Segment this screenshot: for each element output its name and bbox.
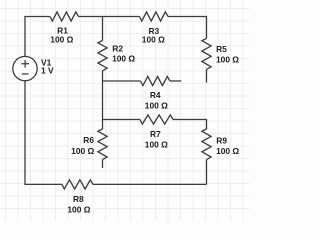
svg-text:100 Ω: 100 Ω [216,55,239,65]
wire R5 bottom open stub [206,69,208,82]
svg-text:100 Ω: 100 Ω [145,139,168,149]
svg-text:R5: R5 [216,44,227,54]
resistor R2 [98,41,107,71]
svg-text:100 Ω: 100 Ω [112,54,135,64]
wire node B to R7 [103,119,141,121]
resistor R5 [202,38,211,69]
resistor R4 [141,76,170,85]
svg-text:100 Ω: 100 Ω [142,35,165,45]
wire R4 right open stub [170,80,181,82]
resistor R1 [50,12,79,21]
svg-text:100 Ω: 100 Ω [216,146,239,156]
resistor R8 [62,180,93,189]
wire bottom rail left: V1 bottom to R8 [25,81,62,185]
svg-text:R6: R6 [83,135,94,145]
wire R2 bottom to node A [102,71,104,81]
svg-text:100 Ω: 100 Ω [67,205,90,215]
wire node A to R4 [103,80,141,82]
wire top rail left: V1 top to R1 [25,17,50,57]
svg-text:R4: R4 [150,90,161,100]
wire top rail right: R3 to corner down to R5 [168,17,207,39]
wire node A down to node B [102,81,104,120]
grid (decorative) [0,0,250,221]
svg-text:100 Ω: 100 Ω [71,146,94,156]
svg-text:100 Ω: 100 Ω [145,101,168,111]
svg-text:R8: R8 [73,194,84,204]
wire bottom rail right: R8 to bottom-right corner [93,183,207,185]
wire R9 bottom to bottom rail corner [206,160,208,185]
resistor R7 [140,115,173,124]
svg-text:R7: R7 [150,129,161,139]
voltage source V1 [13,56,37,80]
svg-text:R9: R9 [216,136,227,146]
wire R6 bottom open stub [102,160,104,168]
resistor R9 [202,129,211,160]
wire R6 branch from node B [102,120,104,130]
svg-text:100 Ω: 100 Ω [50,34,73,44]
svg-text:1 V: 1 V [41,65,54,75]
wire R7 to right rail corner down to R9 [173,120,207,130]
resistor R6 [98,129,107,160]
wire top rail middle: R1 to R3 through R2 node [79,16,140,18]
resistor R3 [140,12,169,21]
svg-text:R2: R2 [112,44,123,54]
wire R2 branch from top rail [102,17,104,41]
